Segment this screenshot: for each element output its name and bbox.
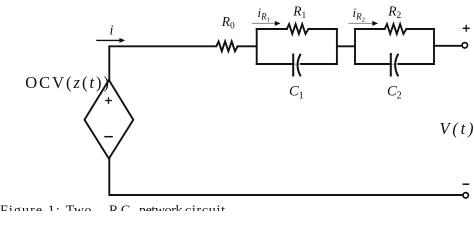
svg-text:R2: R2: [387, 4, 401, 22]
svg-text:V(t): V(t): [440, 119, 474, 138]
svg-text:circuit: circuit: [185, 204, 226, 211]
svg-text:RC: RC: [109, 204, 133, 211]
svg-text:OCV(z(t)): OCV(z(t)): [25, 73, 111, 92]
svg-text:Figure 1:: Figure 1:: [0, 204, 61, 211]
svg-text:R0: R0: [221, 14, 235, 32]
svg-text:R1: R1: [292, 4, 306, 22]
svg-text:iR2: iR2: [353, 5, 365, 24]
svg-text:iR1: iR1: [258, 5, 270, 24]
svg-text:C2: C2: [387, 84, 402, 102]
svg-text:i: i: [110, 24, 114, 39]
svg-text:network: network: [139, 204, 182, 211]
svg-text:C1: C1: [289, 84, 304, 102]
svg-text:Two: Two: [66, 204, 92, 211]
